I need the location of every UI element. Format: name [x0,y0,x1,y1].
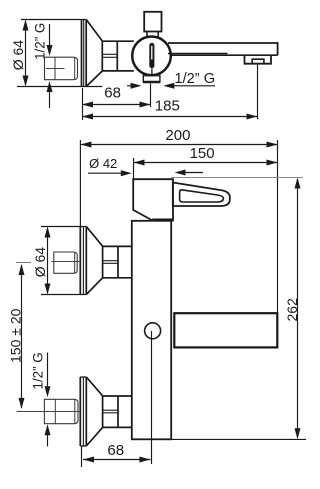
connector block seam [102,53,117,55]
flange2 plate [79,377,81,446]
cap neck right [157,32,159,38]
outlet box [245,55,272,64]
svg-text:185: 185 [155,98,180,115]
right extension tick for 68 [150,84,152,108]
dim 68 (bottom) line [83,459,150,461]
handle inner [180,190,224,202]
dim 68 (bottom) left ext [81,446,83,467]
label O42 right arrow [180,172,203,174]
connector block [102,40,134,42]
spout right edge [277,42,279,55]
svg-text:150: 150 [190,145,215,162]
svg-text:Ø 64: Ø 64 [10,40,26,71]
dimension O64 vertical line [25,21,27,85]
dim O64 (bottom) line [47,228,49,293]
dimension O64 arrow down [23,76,29,87]
extension line cap-left [133,158,135,179]
grey extension line (handle top) [171,177,303,179]
bottom extension line [171,438,306,440]
left extension line [82,88,84,120]
label O42 leader arrow [88,172,123,174]
svg-text:1/2” G: 1/2” G [30,352,45,389]
pipe1 end cap [74,252,76,273]
flange2 block seam [103,409,118,411]
svg-text:68: 68 [107,442,124,459]
label 1/2" G up arrow [47,433,49,446]
stub thick bottom bar [143,81,160,84]
svg-text:Ø 42: Ø 42 [89,156,117,171]
svg-text:1/2” G: 1/2” G [32,23,47,60]
flange2 block [103,395,132,397]
spout box [174,313,277,347]
handle outer [173,183,230,207]
svg-text:262: 262 [284,298,300,322]
flange1 ext bottom [41,294,86,296]
flange1 ext top [41,226,86,228]
flange1 cone [86,227,102,247]
lever tail [151,68,153,75]
spout top line [168,42,278,44]
label small right-pointing arrow [127,85,135,87]
dim 150+-20 tick top [16,262,31,264]
label 1/2" G left-pointing arrow [169,85,215,87]
lever slot slit [151,46,153,60]
label 1/2" G down arrow [47,353,49,389]
flange2 plate top cap [80,376,86,378]
extension line top (flange top) [21,19,86,21]
cartridge cap [144,12,161,32]
pipe2 end cap [74,400,76,424]
wall extension line [79,140,81,227]
dim 150 line [134,162,278,164]
dim 68 line [83,104,151,106]
body centerline down [151,331,153,464]
flange2 cone [86,377,102,396]
aerator [252,59,264,64]
inlet pipe (side view) [45,57,78,79]
pipe2 centerline [17,411,81,413]
dim 200 line [80,144,277,146]
inlet pipe centerline [46,68,65,70]
spout outer bottom line [170,54,278,56]
flange cone [86,20,102,42]
cap thick bottom [152,219,173,222]
flange1 block [103,245,132,247]
extension line from outlet [257,64,259,119]
body stub below circle [142,73,144,83]
pipe2 seam [54,399,56,423]
dimension O64 arrow up [23,20,29,31]
main body [132,221,171,439]
svg-text:150 ± 20: 150 ± 20 [8,308,24,363]
dim 150+-20 line [21,265,23,408]
dim 185 line [83,116,258,118]
cap neck left [146,32,148,38]
wall flange plate (side) [81,20,83,87]
flange1 block seam [103,260,118,262]
pipe1 [54,252,77,273]
pipe2 [44,399,78,423]
svg-text:68: 68 [104,85,121,102]
spout inner bottom line [168,53,228,55]
label 1/2" G up arrow (below pipe) [49,89,51,108]
svg-text:Ø 64: Ø 64 [32,247,48,278]
dim 262 line [297,179,299,438]
extension line spout-right [277,140,279,313]
svg-text:1/2” G: 1/2” G [175,71,216,87]
inlet pipe seam [54,57,56,79]
pipe1 centerline [51,261,80,263]
inlet pipe end cap [74,57,76,79]
svg-text:200: 200 [165,127,190,144]
flange2 plate bottom cap [80,445,86,447]
body circle [132,37,171,76]
lever slot [149,43,154,68]
label 1/2" G down arrow [49,24,51,48]
extension line bottom (flange bottom) [17,86,102,88]
body cap [133,179,173,220]
screw circle [145,323,161,339]
flange1 plate [79,227,81,295]
